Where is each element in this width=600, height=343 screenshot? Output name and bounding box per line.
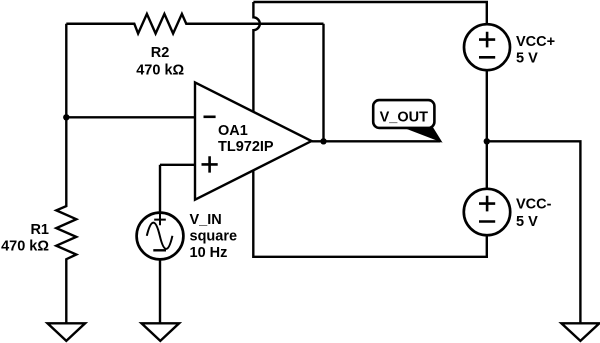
op-amp non-inverting plus sign — [202, 156, 218, 172]
source V_IN circle — [137, 213, 184, 260]
source VCC- plus sign — [479, 196, 495, 212]
ground bottom right — [561, 323, 599, 341]
node A inverting input junction — [63, 114, 69, 120]
wire top feedback horizontal with resistor R2 body — [66, 14, 323, 34]
wire inverting input — [66, 116, 195, 118]
svg-text:VCC-: VCC- — [516, 197, 552, 213]
svg-text:470 kΩ: 470 kΩ — [1, 239, 49, 255]
node supply midpoint junction — [484, 138, 490, 144]
svg-text:470 kΩ: 470 kΩ — [136, 63, 184, 79]
svg-text:V_OUT: V_OUT — [380, 109, 428, 125]
wire VCC- bottom to op-amp V- supply — [253, 170, 486, 256]
source VCC+ circle — [464, 24, 510, 70]
svg-text:10 Hz: 10 Hz — [190, 245, 228, 261]
wire supply midpoint to right rail — [487, 141, 581, 323]
svg-text:R2: R2 — [151, 45, 170, 61]
svg-text:R1: R1 — [30, 222, 49, 238]
flag V_OUT tail — [407, 128, 441, 141]
source VCC- circle — [464, 189, 510, 235]
node output junction — [320, 138, 326, 144]
wire top supply rail — [253, 2, 486, 24]
source V_IN minus sign — [153, 249, 166, 251]
wire V_IN top vertical — [159, 165, 161, 213]
wire feedback vertical down to output node — [322, 24, 324, 142]
svg-text:square: square — [190, 228, 238, 244]
source VCC- minus sign — [479, 220, 495, 223]
wire left vertical with resistor R1 body — [56, 24, 76, 324]
wire VCC+ to VCC- vertical — [486, 70, 488, 189]
svg-text:TL972IP: TL972IP — [218, 139, 274, 155]
source V_IN plus sign — [154, 214, 166, 225]
ground under R1 — [48, 323, 86, 341]
source VCC+ minus sign — [479, 56, 495, 59]
svg-text:VCC+: VCC+ — [516, 34, 555, 50]
ground under V_IN — [142, 323, 180, 341]
wire op-amp V+ supply with hop over feedback wire — [253, 2, 259, 112]
svg-text:OA1: OA1 — [218, 123, 248, 139]
svg-text:5 V: 5 V — [516, 214, 538, 230]
wire V_IN bottom vertical — [159, 259, 161, 323]
svg-text:V_IN: V_IN — [190, 212, 222, 228]
flag V_OUT box — [373, 100, 434, 128]
source V_IN sine wave — [147, 223, 173, 249]
wire op-amp output — [312, 140, 441, 142]
source VCC+ plus sign — [479, 32, 495, 48]
op-amp OA1 triangle — [195, 82, 312, 199]
wire non-inverting input — [160, 164, 195, 166]
op-amp inverting minus sign — [204, 116, 216, 119]
svg-text:5 V: 5 V — [516, 50, 538, 66]
